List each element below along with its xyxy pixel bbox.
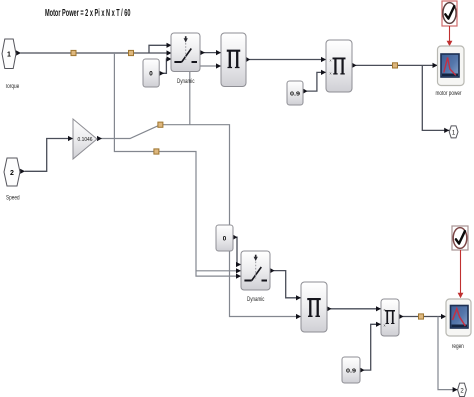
svg-text:motor power: motor power bbox=[436, 91, 462, 97]
svg-text:1: 1 bbox=[7, 51, 11, 58]
svg-text:0.9: 0.9 bbox=[290, 91, 301, 97]
wire: switch1 out to product1 bbox=[200, 50, 221, 55]
svg-text:Dynamic: Dynamic bbox=[177, 79, 195, 85]
junction marker on regen wire bbox=[419, 314, 424, 319]
svg-text:Speed: Speed bbox=[6, 196, 20, 202]
svg-text:x: x bbox=[384, 307, 386, 312]
constant 0.9 (top) bbox=[287, 81, 303, 105]
switch1 Dynamic bbox=[171, 33, 200, 85]
scope1 motor power bbox=[436, 46, 465, 97]
junction marker on Torque wire (right) bbox=[129, 50, 134, 55]
junction marker on Torque wire (left) bbox=[71, 50, 76, 55]
scope badge 2 (checkmark) bbox=[452, 226, 468, 298]
outport 1 bbox=[449, 126, 458, 138]
wire: branch up to switch1 in1 bbox=[149, 43, 172, 53]
wire: product2 out to scope1, branch to outport1 bbox=[352, 63, 449, 133]
junction marker on gain wire diagonal bbox=[158, 122, 163, 127]
svg-text:Motor Power = 2 x Pi x N x T /: Motor Power = 2 x Pi x N x T / 60 bbox=[45, 8, 131, 19]
junction marker on Torque branch wire bbox=[154, 149, 159, 154]
gain 0.1046 bbox=[73, 119, 97, 159]
svg-text:x: x bbox=[330, 58, 332, 63]
product4 bbox=[381, 299, 399, 336]
scope2 regen bbox=[446, 299, 471, 350]
inport 1 bbox=[2, 39, 20, 90]
constant 0 (top) bbox=[143, 59, 159, 87]
product2 bbox=[326, 40, 352, 92]
product3 bbox=[301, 282, 327, 332]
svg-text:x: x bbox=[330, 70, 332, 75]
wire: Speed port to gain bbox=[20, 136, 73, 174]
svg-text:2: 2 bbox=[10, 170, 14, 177]
wire: constant 0.9 top to product2 in2 bbox=[303, 70, 326, 94]
constant 0.9 (bottom) bbox=[342, 357, 360, 383]
svg-text:0: 0 bbox=[223, 236, 227, 243]
wire: constant0 bottom to switch2 in1 bbox=[233, 235, 241, 268]
wire: Torque branch down to switch2 bbox=[114, 53, 241, 279]
svg-text:x: x bbox=[384, 322, 386, 327]
outport 2 bbox=[458, 383, 467, 396]
svg-text:0: 0 bbox=[149, 71, 153, 78]
switch2 Dynamic bbox=[241, 251, 270, 303]
wire: Torque main horizontal bbox=[16, 50, 172, 55]
svg-text:0.9: 0.9 bbox=[346, 368, 357, 374]
wire: product1 out to product2 in1 bbox=[246, 57, 326, 62]
scope badge 1 (checkmark) bbox=[442, 1, 457, 46]
wire: branch up to product1 in2 bbox=[190, 63, 221, 124]
inport 2 bbox=[4, 158, 20, 202]
wire: product4 out to scope2, branch to outport2 bbox=[399, 314, 458, 392]
wire: constant 0.9 bottom to product4 in2 bbox=[360, 322, 381, 373]
constant 0 (bottom) bbox=[216, 225, 233, 251]
wire: constant0 top to switch1 in3 bbox=[159, 56, 171, 76]
wire: gain out with diagonal, to product3 in2 bbox=[97, 125, 301, 319]
svg-text:regen: regen bbox=[452, 344, 464, 350]
junction marker on motor power wire bbox=[393, 63, 398, 68]
svg-text:Dynamic: Dynamic bbox=[247, 297, 265, 303]
wire: switch2 out to product3 in1 bbox=[270, 268, 301, 300]
wire: product3 out to product4 in1 bbox=[327, 306, 381, 311]
svg-text:0.1046: 0.1046 bbox=[78, 137, 93, 143]
svg-text:Torque: Torque bbox=[5, 84, 20, 90]
product1 bbox=[221, 33, 246, 87]
